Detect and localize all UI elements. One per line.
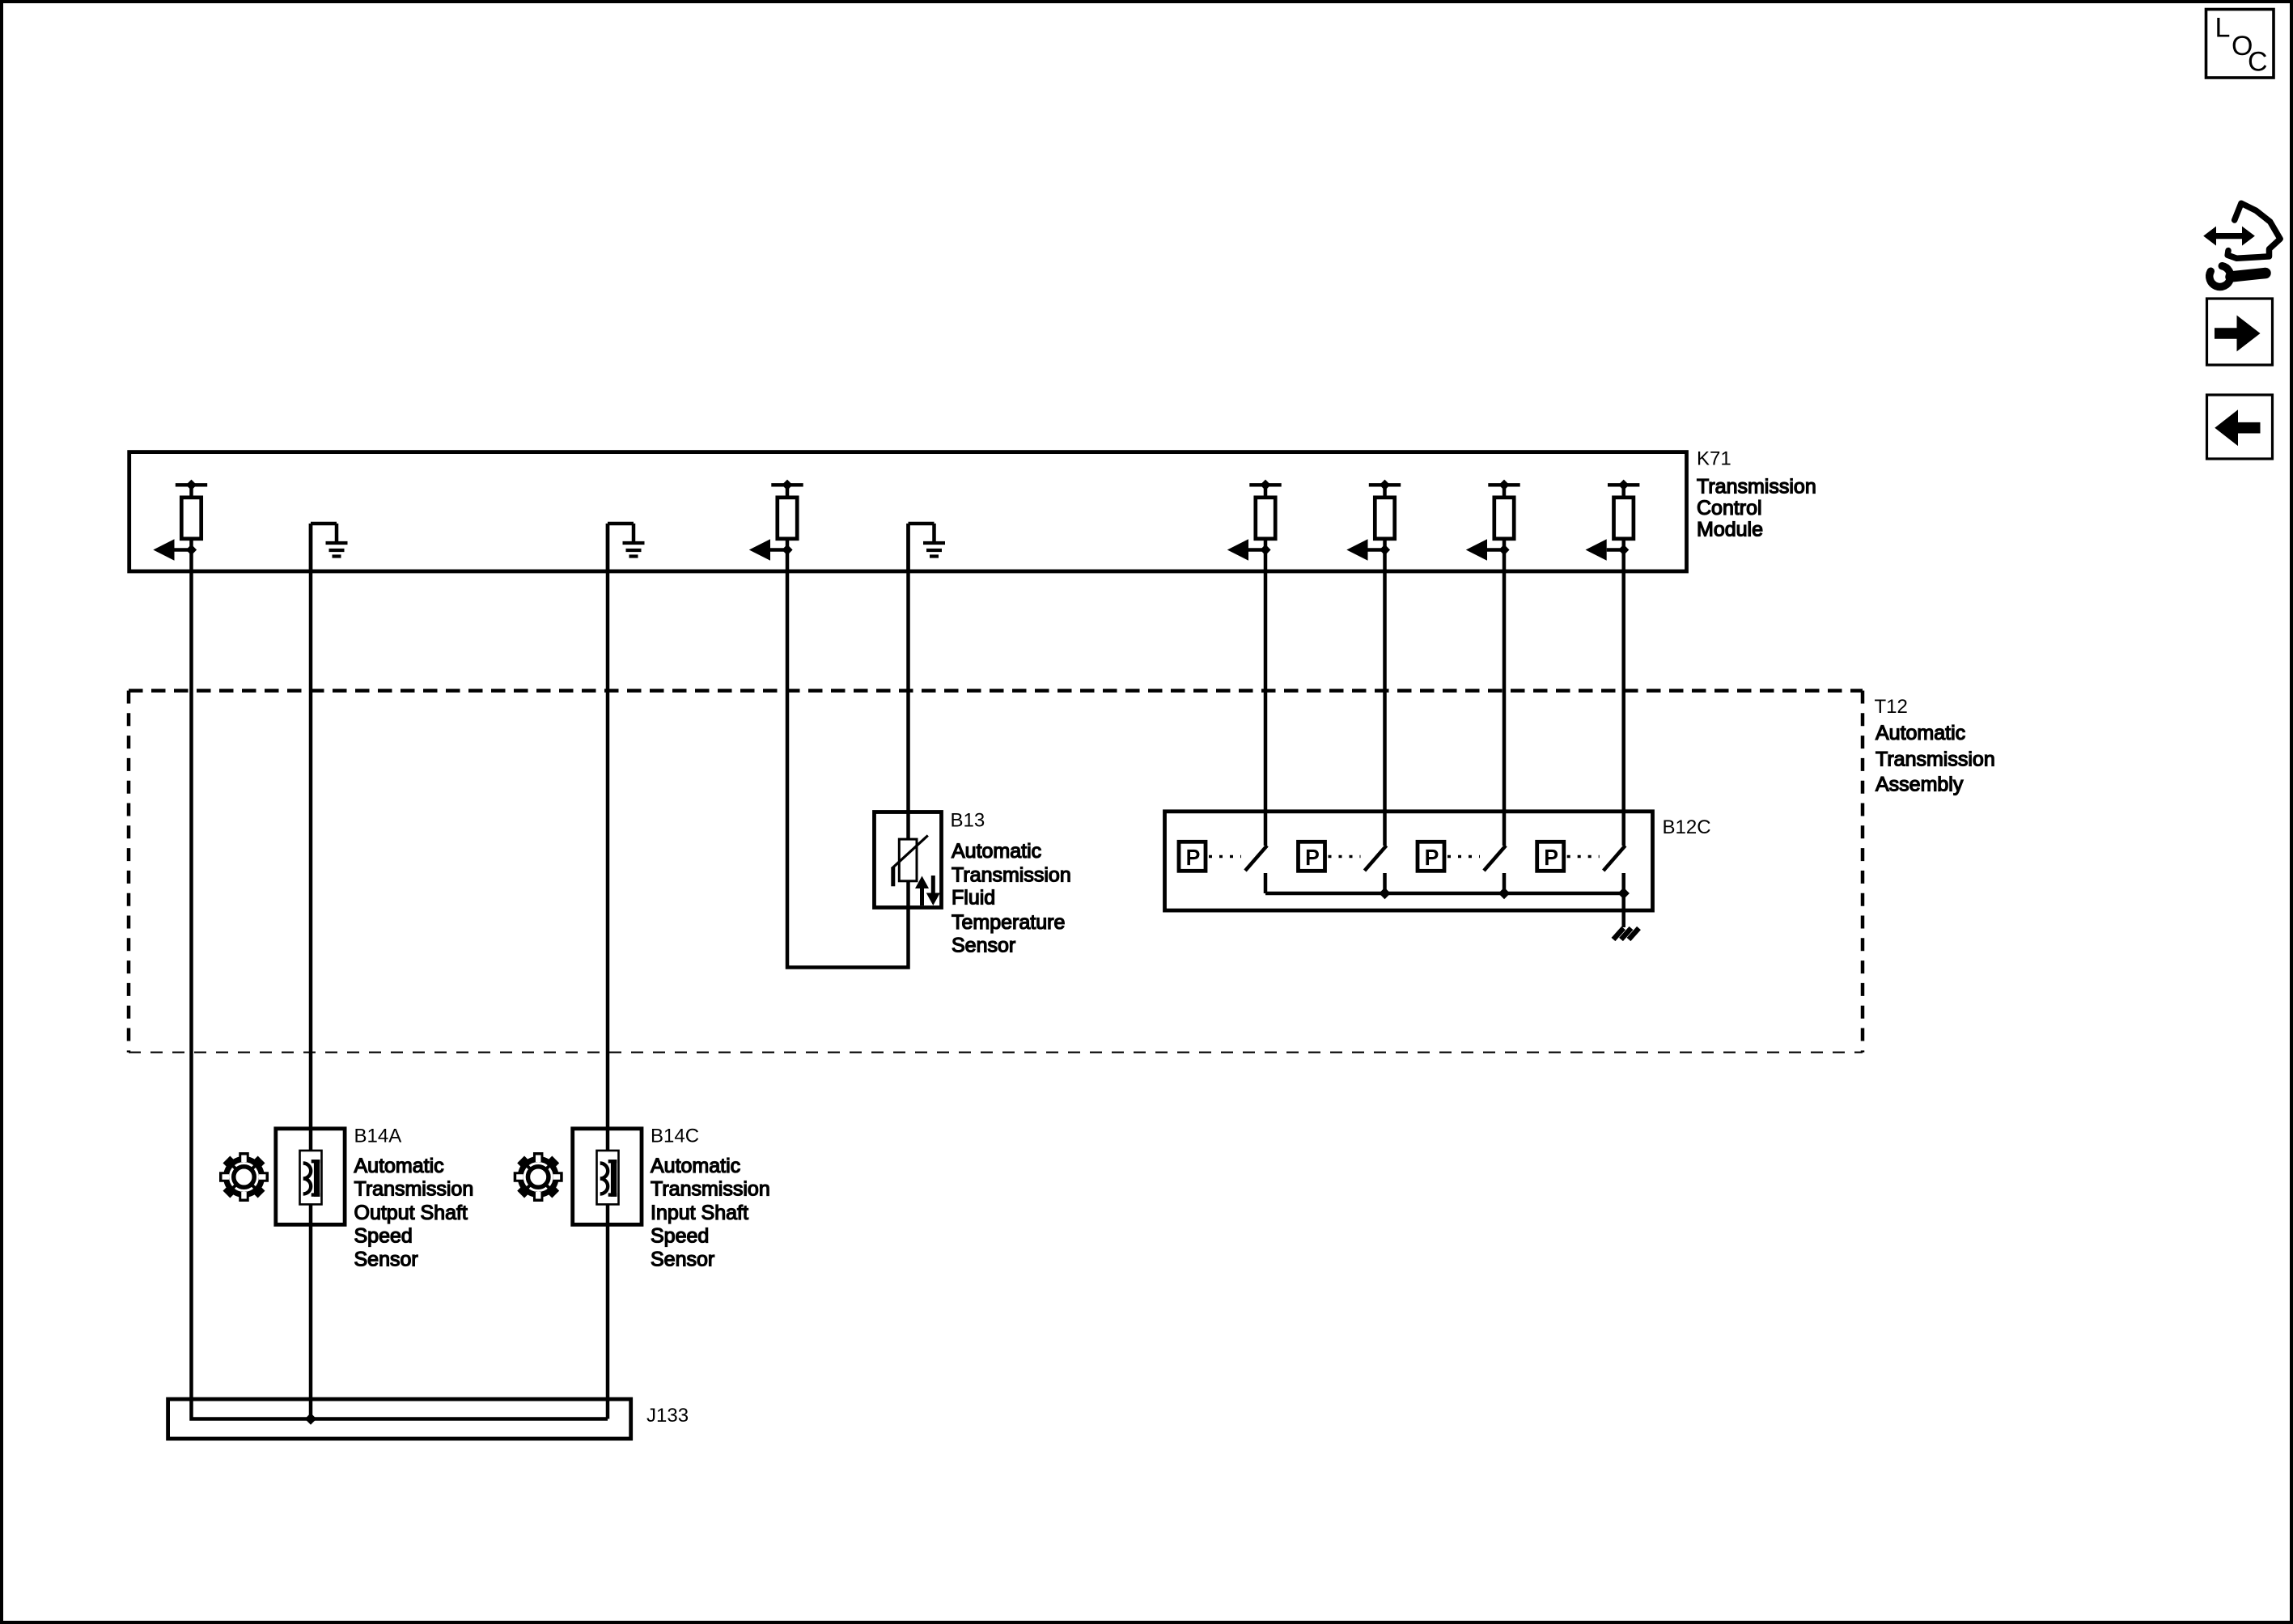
B14C inductive sensor element	[597, 1151, 619, 1205]
svg-text:T12: T12	[1875, 696, 1908, 718]
wire from K71 pin2 ground down to B14A sensor	[309, 524, 313, 1151]
K71 pin8 resistor with output arrow	[1466, 480, 1520, 561]
svg-text:B14C: B14C	[651, 1126, 699, 1147]
B14A label	[354, 1126, 474, 1271]
K71 label	[1697, 448, 1816, 541]
svg-text:J133: J133	[646, 1405, 689, 1427]
svg-text:K71: K71	[1697, 448, 1731, 470]
LOC reference box (top right)	[2206, 10, 2274, 78]
up/down arrows in B13	[915, 876, 940, 905]
K71 pin7 resistor with output arrow	[1346, 480, 1401, 561]
T12 Automatic Transmission Assembly dashed box : top edge	[129, 689, 1863, 693]
wire from B14A sensor down to J133 bus	[309, 1204, 313, 1418]
svg-text:L: L	[2215, 13, 2231, 44]
svg-text:Control: Control	[1697, 497, 1762, 519]
svg-text:C: C	[2248, 47, 2268, 78]
wire from K71 pin4 down, corner, to B13 bottom	[787, 550, 909, 968]
svg-text:Speed: Speed	[651, 1225, 709, 1248]
service double-arrow + wrench icon (right margin)	[2203, 203, 2280, 286]
K71 pin2 internal ground	[311, 524, 348, 572]
K71 pin9 resistor with output arrow	[1586, 480, 1640, 561]
svg-text:Sensor: Sensor	[651, 1248, 714, 1270]
T12 dashed box : left edge	[127, 691, 131, 1053]
svg-text:Transmission: Transmission	[354, 1178, 474, 1201]
junction bus/switch2	[1379, 888, 1390, 899]
B14C Automatic Transmission Input Shaft Speed Sensor box	[573, 1129, 642, 1225]
svg-text:Speed: Speed	[354, 1225, 413, 1248]
forward arrow box (right margin)	[2207, 299, 2273, 365]
B14A Automatic Transmission Output Shaft Speed Sensor box	[276, 1129, 345, 1225]
svg-text:Input Shaft: Input Shaft	[651, 1202, 748, 1224]
thermistor element in B13	[892, 836, 928, 887]
K71 pin3 internal ground	[608, 524, 645, 572]
T12 dashed box : right edge	[1861, 691, 1865, 1053]
svg-text:Module: Module	[1697, 518, 1763, 541]
wire from K71 pin3 ground down to B14C sensor	[606, 524, 610, 1151]
svg-text:Automatic: Automatic	[952, 840, 1041, 863]
svg-text:Automatic: Automatic	[354, 1155, 444, 1177]
svg-text:Transmission: Transmission	[651, 1178, 770, 1201]
svg-text:Output Shaft: Output Shaft	[354, 1202, 468, 1224]
K71 pin4 resistor with output arrow	[749, 480, 803, 561]
svg-text:Transmission: Transmission	[1876, 748, 1995, 770]
svg-text:Transmission: Transmission	[1697, 475, 1816, 498]
svg-text:Fluid: Fluid	[952, 887, 995, 910]
K71 pin5 internal ground	[909, 524, 946, 572]
wire from K71 pin9 down to B12C switch 4	[1621, 550, 1625, 846]
B12C switch 4 (P)	[1537, 842, 1625, 893]
J133 splice pack box	[168, 1399, 631, 1439]
B13 Automatic Transmission Fluid Temperature Sensor box	[875, 812, 942, 908]
wire from K71 pin5 ground down to B13 top	[906, 524, 910, 839]
svg-text:Automatic: Automatic	[651, 1155, 740, 1177]
B12C pressure switch block box	[1165, 812, 1653, 910]
svg-text:B13: B13	[951, 810, 985, 832]
junction bus/ground drop	[1618, 888, 1630, 899]
svg-text:B12C: B12C	[1663, 816, 1711, 838]
B14C label	[651, 1126, 770, 1271]
K71 pin1 resistor with output arrow	[153, 480, 207, 561]
wire from K71 pin1 down to J133 bus	[192, 550, 608, 1419]
B12C common bus	[1265, 892, 1624, 896]
K71 Transmission Control Module box	[129, 452, 1687, 571]
svg-text:Automatic: Automatic	[1876, 722, 1965, 744]
B13 label	[951, 810, 1071, 957]
wire from B14C sensor down to J133 bus	[606, 1204, 610, 1418]
svg-text:Temperature: Temperature	[952, 911, 1065, 934]
gear icon beside B14A	[219, 1152, 269, 1202]
back arrow box (right margin)	[2207, 395, 2273, 459]
B12C switch 3 (P)	[1418, 842, 1506, 893]
wire from K71 pin8 down to B12C switch 3	[1503, 550, 1507, 846]
svg-text:Sensor: Sensor	[952, 935, 1015, 957]
junction at J133 bus and B14A wire	[305, 1413, 316, 1424]
svg-text:Sensor: Sensor	[354, 1248, 418, 1270]
wire from K71 pin7 down to B12C switch 2	[1383, 550, 1387, 846]
wire from B12C bus to chassis ground	[1621, 893, 1625, 927]
gear icon beside B14C	[514, 1152, 563, 1202]
wire from K71 pin6 down to B12C switch 1	[1264, 550, 1268, 846]
T12 label	[1875, 696, 1995, 795]
B12C switch 1 (P)	[1179, 842, 1267, 893]
svg-text:Assembly: Assembly	[1876, 773, 1964, 795]
B14A inductive sensor element	[300, 1151, 322, 1205]
chassis ground symbol	[1613, 928, 1639, 939]
K71 pin6 resistor with output arrow	[1227, 480, 1282, 561]
B12C switch 2 (P)	[1299, 842, 1387, 893]
junction bus/switch3	[1498, 888, 1510, 899]
svg-text:B14A: B14A	[354, 1126, 402, 1147]
T12 dashed box : bottom edge	[129, 1052, 1863, 1054]
svg-text:Transmission: Transmission	[952, 863, 1071, 886]
